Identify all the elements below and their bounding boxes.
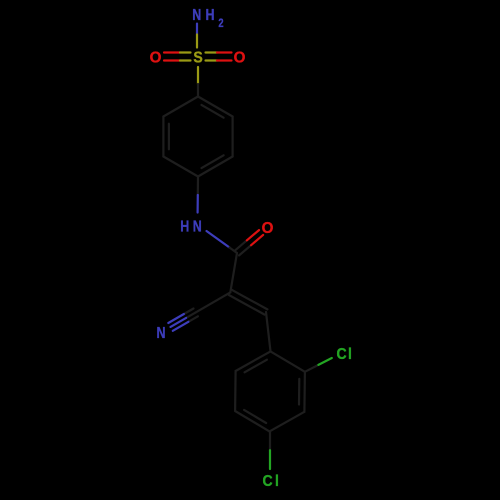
svg-text:O: O (150, 49, 162, 66)
svg-text:l: l (348, 345, 352, 363)
svg-text:N: N (156, 325, 165, 343)
ring2 inner double-bond line (245, 360, 267, 373)
bond NH2-S lower half (S olive) (196, 35, 198, 48)
bond C8-ring2 (266, 312, 271, 351)
bond S-C1 olive half (197, 67, 199, 84)
bond N-C7 dark half (230, 248, 238, 254)
svg-text:H: H (205, 7, 214, 25)
triple bond C#N dark halves (186, 312, 196, 318)
bond S-C1 dark half (197, 84, 199, 97)
bond D-Cl2 dark half (269, 431, 271, 450)
ring2 benzene edge 1 (271, 351, 305, 371)
svg-text:H: H (180, 218, 189, 236)
bond Calpha-Cnitrile (196, 292, 231, 312)
bond Calpha=C8 line (229, 295, 265, 315)
bond S=O right, red half (217, 51, 232, 53)
svg-text:2: 2 (218, 17, 223, 30)
ring1 benzene edge 5 (162, 117, 164, 157)
bond C4-N dark half (197, 177, 199, 196)
ring2 benzene edge 3 (270, 412, 305, 432)
ring1 benzene edge 6 (163, 97, 198, 117)
svg-text:N: N (193, 218, 202, 236)
bond D-Cl2 green half (269, 450, 271, 469)
ring1 benzene edge 2 (232, 117, 234, 157)
bond N-C7 blue half (207, 231, 230, 248)
svg-text:C: C (337, 345, 347, 363)
bond B-Cl1 dark half (305, 365, 319, 372)
triple bond C#N blue halves (171, 318, 187, 327)
ring1 inner double-bond line (168, 124, 170, 150)
svg-text:S: S (193, 49, 202, 67)
svg-text:O: O (262, 219, 274, 236)
bond S=O right, olive half (206, 51, 218, 53)
ring2 benzene edge 6 (236, 351, 271, 371)
ring1 benzene edge 4 (163, 157, 198, 177)
bond B-Cl1 green half (318, 358, 331, 365)
svg-text:l: l (275, 472, 279, 490)
svg-text:N: N (192, 7, 201, 25)
ring2 benzene edge 5 (234, 371, 237, 411)
bond C4-N blue half (197, 195, 199, 213)
bond C7-Calpha (230, 253, 237, 292)
svg-text:O: O (234, 49, 246, 66)
ring1 benzene edge 3 (198, 157, 233, 177)
ring2 inner double-bond line (244, 410, 266, 423)
ring2 benzene edge 4 (235, 411, 269, 431)
ring1 benzene edge 1 (198, 97, 233, 117)
bond NH2-S upper half (N blue) (196, 24, 198, 35)
bond C7=O red half (251, 235, 263, 245)
svg-text:C: C (263, 472, 273, 490)
ring1 inner double-bond line (202, 105, 224, 118)
bond S=O left, red half (164, 51, 180, 53)
ring2 inner double-bond line (298, 379, 300, 405)
ring2 benzene edge 2 (303, 372, 306, 412)
bond C7=O dark half (239, 245, 251, 255)
bond S=O left, olive half (180, 51, 191, 53)
ring1 inner double-bond line (202, 155, 224, 168)
